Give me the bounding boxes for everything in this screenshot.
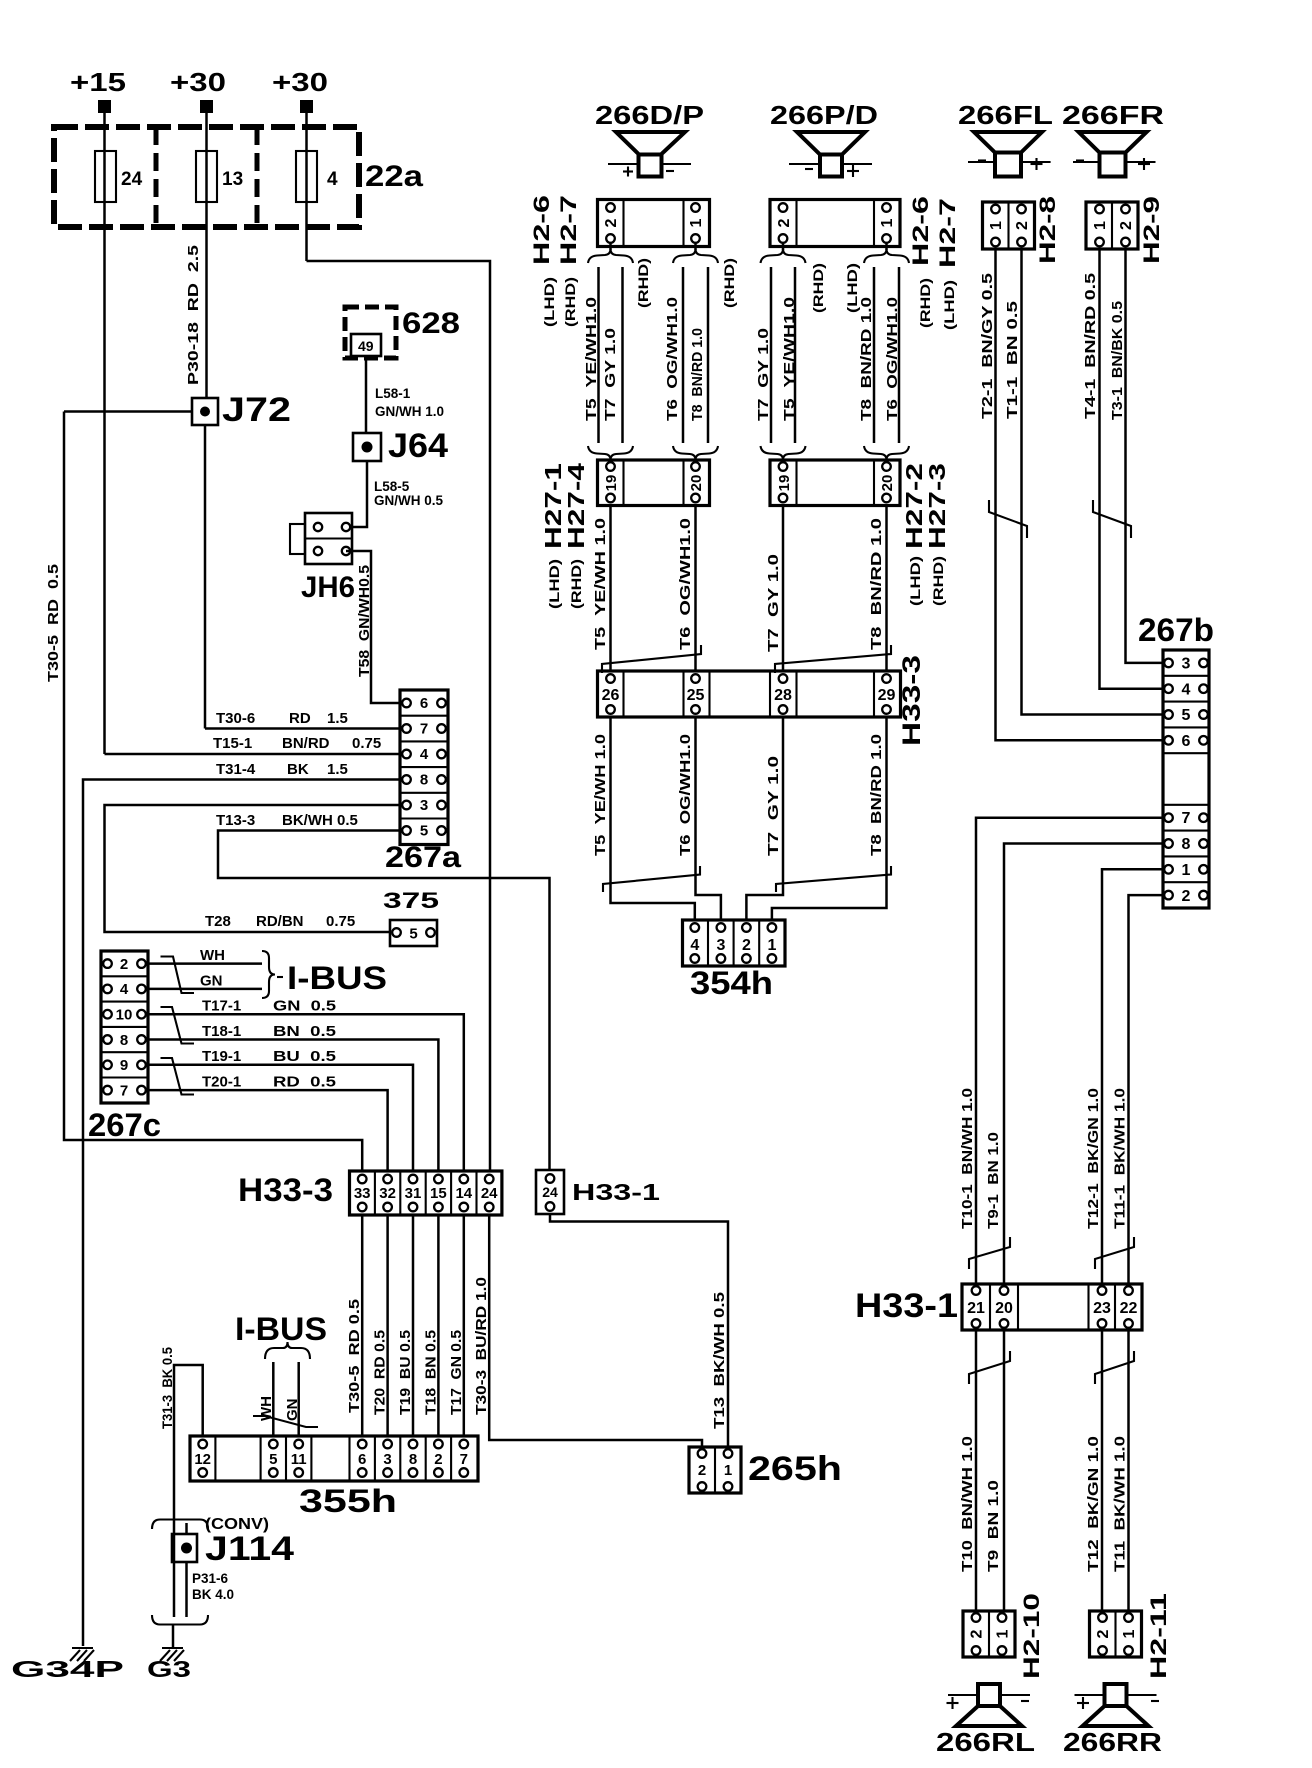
svg-text:1: 1 bbox=[988, 221, 1005, 230]
svg-text:9: 9 bbox=[120, 1057, 128, 1074]
svg-text:33: 33 bbox=[354, 1185, 371, 1202]
svg-text:(RHD): (RHD) bbox=[918, 278, 933, 328]
svg-text:3: 3 bbox=[716, 937, 725, 954]
svg-text:T31-4: T31-4 bbox=[216, 761, 256, 778]
svg-text:2: 2 bbox=[434, 1451, 442, 1468]
svg-text:3: 3 bbox=[383, 1451, 391, 1468]
svg-text:J64: J64 bbox=[388, 427, 448, 465]
svg-text:RD: RD bbox=[289, 710, 311, 727]
svg-text:T10 BN/WH 1.0: T10 BN/WH 1.0 bbox=[959, 1436, 976, 1572]
svg-text:T6 OG/WH1.0: T6 OG/WH1.0 bbox=[884, 297, 901, 421]
svg-text:T17-1: T17-1 bbox=[202, 998, 241, 1015]
svg-text:25: 25 bbox=[687, 687, 705, 704]
svg-text:T18 BN 0.5: T18 BN 0.5 bbox=[422, 1330, 439, 1415]
svg-text:(LHD): (LHD) bbox=[547, 559, 562, 609]
svg-text:L58-1: L58-1 bbox=[375, 386, 411, 401]
svg-text:T18-1: T18-1 bbox=[202, 1023, 241, 1040]
svg-text:T13 BK/WH 0.5: T13 BK/WH 0.5 bbox=[711, 1292, 728, 1429]
svg-text:7: 7 bbox=[1182, 810, 1191, 827]
svg-text:BK/WH 0.5: BK/WH 0.5 bbox=[282, 812, 358, 829]
svg-text:266P/D: 266P/D bbox=[770, 100, 878, 130]
svg-text:5: 5 bbox=[269, 1451, 277, 1468]
svg-text:T6 OG/WH1.0: T6 OG/WH1.0 bbox=[677, 734, 694, 856]
svg-text:T12-1 BK/GN 1.0: T12-1 BK/GN 1.0 bbox=[1085, 1088, 1102, 1229]
svg-text:BK 4.0: BK 4.0 bbox=[192, 1587, 234, 1602]
svg-text:2: 2 bbox=[1118, 221, 1135, 230]
svg-text:29: 29 bbox=[878, 687, 896, 704]
svg-text:1.5: 1.5 bbox=[327, 761, 348, 778]
svg-text:+30: +30 bbox=[170, 67, 226, 97]
svg-text:2: 2 bbox=[969, 1629, 986, 1638]
svg-text:T20-1: T20-1 bbox=[202, 1073, 241, 1090]
svg-text:267c: 267c bbox=[88, 1107, 161, 1143]
svg-text:4: 4 bbox=[1182, 682, 1191, 699]
svg-text:32: 32 bbox=[379, 1185, 396, 1202]
svg-text:JH6: JH6 bbox=[301, 571, 355, 604]
svg-text:H2-10: H2-10 bbox=[1019, 1593, 1044, 1679]
svg-text:1: 1 bbox=[879, 218, 896, 227]
svg-text:T7 GY 1.0: T7 GY 1.0 bbox=[765, 756, 782, 856]
svg-text:2: 2 bbox=[1095, 1629, 1112, 1638]
svg-text:266FL: 266FL bbox=[958, 100, 1053, 130]
svg-text:T5 YE/WH1.0: T5 YE/WH1.0 bbox=[583, 297, 600, 421]
svg-text:1: 1 bbox=[1182, 862, 1191, 879]
svg-text:8: 8 bbox=[409, 1451, 417, 1468]
svg-text:265h: 265h bbox=[748, 1450, 842, 1488]
svg-text:T20 RD 0.5: T20 RD 0.5 bbox=[372, 1330, 389, 1415]
svg-text:+15: +15 bbox=[70, 67, 126, 97]
svg-text:T5 YE/WH 1.0: T5 YE/WH 1.0 bbox=[592, 518, 609, 650]
svg-text:T8 BN/RD 1.0: T8 BN/RD 1.0 bbox=[858, 297, 875, 421]
svg-text:T4-1 BN/RD 0.5: T4-1 BN/RD 0.5 bbox=[1082, 273, 1099, 419]
svg-text:21: 21 bbox=[967, 1300, 985, 1317]
svg-text:5: 5 bbox=[409, 926, 417, 943]
svg-text:I-BUS: I-BUS bbox=[235, 1311, 327, 1347]
svg-text:4: 4 bbox=[327, 169, 338, 190]
svg-text:I-BUS: I-BUS bbox=[287, 960, 387, 996]
svg-text:23: 23 bbox=[1093, 1300, 1111, 1317]
svg-text:T19 BU 0.5: T19 BU 0.5 bbox=[397, 1330, 414, 1415]
svg-text:GN/WH 0.5: GN/WH 0.5 bbox=[374, 493, 444, 508]
svg-text:28: 28 bbox=[774, 687, 792, 704]
svg-text:GN: GN bbox=[200, 973, 223, 990]
svg-text:H2-6: H2-6 bbox=[529, 195, 554, 265]
svg-text:(RHD): (RHD) bbox=[569, 559, 584, 609]
svg-text:1: 1 bbox=[688, 218, 705, 227]
svg-text:3: 3 bbox=[1182, 656, 1191, 673]
svg-text:7: 7 bbox=[420, 721, 428, 738]
svg-text:T1-1 BN 0.5: T1-1 BN 0.5 bbox=[1004, 301, 1021, 419]
svg-text:15: 15 bbox=[430, 1185, 447, 1202]
svg-text:2: 2 bbox=[1182, 888, 1191, 905]
svg-text:13: 13 bbox=[222, 169, 243, 190]
svg-text:26: 26 bbox=[602, 687, 620, 704]
svg-text:T3-1 BN/BK 0.5: T3-1 BN/BK 0.5 bbox=[1109, 301, 1126, 420]
svg-text:266RL: 266RL bbox=[936, 1727, 1035, 1757]
svg-text:(RHD): (RHD) bbox=[722, 258, 737, 308]
svg-text:H33-1: H33-1 bbox=[855, 1287, 958, 1325]
svg-text:H33-1: H33-1 bbox=[572, 1179, 660, 1205]
svg-text:P31-6: P31-6 bbox=[192, 1571, 229, 1586]
svg-text:22a: 22a bbox=[365, 160, 423, 193]
svg-text:266D/P: 266D/P bbox=[595, 100, 704, 130]
svg-text:628: 628 bbox=[402, 307, 460, 340]
svg-text:375: 375 bbox=[383, 888, 439, 913]
svg-text:T8 BN/RD 1.0: T8 BN/RD 1.0 bbox=[689, 328, 706, 421]
svg-text:(RHD): (RHD) bbox=[811, 263, 826, 313]
svg-text:20: 20 bbox=[995, 1300, 1013, 1317]
svg-text:T11-1 BK/WH 1.0: T11-1 BK/WH 1.0 bbox=[1112, 1088, 1129, 1229]
svg-text:8: 8 bbox=[1182, 836, 1191, 853]
svg-text:T6 OG/WH1.0: T6 OG/WH1.0 bbox=[664, 297, 681, 421]
svg-text:8: 8 bbox=[120, 1032, 128, 1049]
svg-text:7: 7 bbox=[460, 1451, 468, 1468]
svg-text:20: 20 bbox=[879, 475, 896, 492]
svg-text:(LHD): (LHD) bbox=[942, 280, 957, 330]
svg-text:T15-1: T15-1 bbox=[213, 735, 252, 752]
svg-text:H33-3: H33-3 bbox=[238, 1172, 333, 1208]
svg-text:49: 49 bbox=[358, 338, 374, 354]
svg-text:3: 3 bbox=[420, 797, 428, 814]
svg-text:1: 1 bbox=[1121, 1629, 1138, 1638]
svg-text:T17 GN 0.5: T17 GN 0.5 bbox=[448, 1330, 465, 1415]
svg-text:J114: J114 bbox=[205, 1530, 294, 1568]
svg-text:24: 24 bbox=[121, 169, 143, 190]
svg-text:31: 31 bbox=[405, 1185, 422, 1202]
svg-text:(LHD): (LHD) bbox=[845, 263, 860, 313]
svg-text:GN/WH 1.0: GN/WH 1.0 bbox=[375, 404, 444, 419]
svg-text:14: 14 bbox=[455, 1185, 472, 1202]
svg-text:H33-3: H33-3 bbox=[898, 655, 926, 746]
svg-text:354h: 354h bbox=[690, 965, 773, 1001]
svg-text:L58-5: L58-5 bbox=[374, 479, 410, 494]
svg-text:WH: WH bbox=[200, 947, 225, 964]
svg-text:(LHD): (LHD) bbox=[542, 277, 557, 327]
svg-text:2: 2 bbox=[776, 218, 793, 227]
svg-text:H2-6: H2-6 bbox=[908, 196, 933, 266]
svg-text:T13-3: T13-3 bbox=[216, 812, 255, 829]
svg-text:2: 2 bbox=[1014, 221, 1031, 230]
svg-text:T7 GY 1.0: T7 GY 1.0 bbox=[602, 328, 619, 421]
svg-text:J72: J72 bbox=[222, 391, 291, 429]
svg-text:T8 BN/RD 1.0: T8 BN/RD 1.0 bbox=[868, 518, 885, 650]
svg-text:H2-7: H2-7 bbox=[935, 198, 960, 268]
svg-text:6: 6 bbox=[358, 1451, 366, 1468]
svg-text:2: 2 bbox=[742, 937, 751, 954]
svg-text:RD 0.5: RD 0.5 bbox=[273, 1073, 336, 1090]
svg-text:10: 10 bbox=[116, 1007, 133, 1024]
svg-text:4: 4 bbox=[420, 746, 429, 763]
svg-text:1: 1 bbox=[767, 937, 776, 954]
svg-text:RD/BN: RD/BN bbox=[256, 913, 304, 930]
svg-text:H2-9: H2-9 bbox=[1139, 196, 1164, 264]
svg-text:T12 BK/GN 1.0: T12 BK/GN 1.0 bbox=[1085, 1436, 1102, 1572]
svg-text:T11 BK/WH 1.0: T11 BK/WH 1.0 bbox=[1112, 1436, 1129, 1572]
svg-text:(LHD): (LHD) bbox=[908, 556, 923, 606]
svg-text:4: 4 bbox=[120, 981, 129, 998]
svg-text:2: 2 bbox=[698, 1462, 706, 1479]
svg-text:T8 BN/RD 1.0: T8 BN/RD 1.0 bbox=[868, 734, 885, 856]
svg-text:T28: T28 bbox=[205, 913, 231, 930]
svg-text:0.75: 0.75 bbox=[326, 913, 355, 930]
svg-text:(RHD): (RHD) bbox=[563, 277, 578, 327]
svg-text:BN 0.5: BN 0.5 bbox=[273, 1023, 336, 1040]
svg-text:H27-4: H27-4 bbox=[563, 463, 589, 549]
svg-text:G3: G3 bbox=[147, 1656, 191, 1682]
svg-text:12: 12 bbox=[194, 1451, 211, 1468]
svg-text:2: 2 bbox=[120, 956, 128, 973]
svg-text:2: 2 bbox=[603, 218, 620, 227]
svg-text:T5 YE/WH1.0: T5 YE/WH1.0 bbox=[781, 297, 798, 421]
svg-text:H2-7: H2-7 bbox=[556, 195, 581, 265]
svg-text:T7 GY 1.0: T7 GY 1.0 bbox=[765, 554, 782, 652]
svg-text:BN/RD: BN/RD bbox=[282, 735, 330, 752]
svg-text:267a: 267a bbox=[385, 841, 461, 874]
svg-text:5: 5 bbox=[1182, 707, 1191, 724]
svg-text:T2-1 BN/GY 0.5: T2-1 BN/GY 0.5 bbox=[979, 273, 996, 419]
svg-text:1: 1 bbox=[995, 1629, 1012, 1638]
svg-text:1.5: 1.5 bbox=[327, 710, 348, 727]
svg-text:G34P: G34P bbox=[11, 1656, 124, 1682]
svg-text:+30: +30 bbox=[272, 67, 328, 97]
svg-text:355h: 355h bbox=[299, 1483, 397, 1519]
svg-text:20: 20 bbox=[688, 475, 705, 492]
svg-text:T9 BN 1.0: T9 BN 1.0 bbox=[985, 1480, 1002, 1572]
svg-text:T10-1 BN/WH 1.0: T10-1 BN/WH 1.0 bbox=[959, 1088, 976, 1229]
svg-text:T30-5 RD 0.5: T30-5 RD 0.5 bbox=[346, 1299, 363, 1413]
svg-text:6: 6 bbox=[1182, 733, 1191, 750]
svg-text:6: 6 bbox=[420, 695, 428, 712]
svg-text:T31-3 BK 0.5: T31-3 BK 0.5 bbox=[159, 1347, 175, 1429]
svg-text:4: 4 bbox=[690, 937, 699, 954]
svg-text:1: 1 bbox=[724, 1462, 732, 1479]
svg-text:5: 5 bbox=[420, 823, 428, 840]
svg-text:T7 GY 1.0: T7 GY 1.0 bbox=[755, 328, 772, 421]
svg-text:H2-8: H2-8 bbox=[1035, 196, 1060, 264]
svg-text:19: 19 bbox=[603, 475, 620, 492]
svg-text:T30-5 RD 0.5: T30-5 RD 0.5 bbox=[45, 564, 62, 682]
svg-text:22: 22 bbox=[1120, 1300, 1138, 1317]
svg-text:8: 8 bbox=[420, 772, 428, 789]
svg-text:(RHD): (RHD) bbox=[636, 258, 651, 308]
svg-text:T6 OG/WH1.0: T6 OG/WH1.0 bbox=[677, 518, 694, 650]
svg-text:267b: 267b bbox=[1138, 612, 1214, 648]
svg-text:T58 GN/WH0.5: T58 GN/WH0.5 bbox=[356, 565, 373, 677]
svg-text:BK: BK bbox=[287, 761, 309, 778]
svg-text:GN 0.5: GN 0.5 bbox=[273, 998, 336, 1015]
svg-text:BU 0.5: BU 0.5 bbox=[273, 1048, 336, 1065]
svg-text:H27-3: H27-3 bbox=[924, 463, 950, 549]
svg-text:1: 1 bbox=[1092, 221, 1109, 230]
svg-text:T19-1: T19-1 bbox=[202, 1048, 241, 1065]
svg-text:266FR: 266FR bbox=[1062, 100, 1164, 130]
svg-text:T30-6: T30-6 bbox=[216, 710, 255, 727]
svg-text:24: 24 bbox=[481, 1185, 498, 1202]
svg-text:11: 11 bbox=[291, 1451, 307, 1468]
svg-text:24: 24 bbox=[542, 1184, 558, 1200]
svg-text:T30-3 BU/RD 1.0: T30-3 BU/RD 1.0 bbox=[473, 1277, 490, 1415]
svg-text:266RR: 266RR bbox=[1063, 1727, 1162, 1757]
svg-text:19: 19 bbox=[776, 475, 793, 492]
svg-text:(RHD): (RHD) bbox=[931, 556, 946, 606]
svg-text:P30-18 RD 2.5: P30-18 RD 2.5 bbox=[185, 245, 202, 385]
svg-text:T9-1 BN 1.0: T9-1 BN 1.0 bbox=[985, 1132, 1002, 1229]
svg-text:7: 7 bbox=[120, 1083, 128, 1100]
svg-text:T5 YE/WH 1.0: T5 YE/WH 1.0 bbox=[592, 734, 609, 856]
svg-text:0.75: 0.75 bbox=[352, 735, 381, 752]
svg-text:H2-11: H2-11 bbox=[1146, 1593, 1171, 1679]
